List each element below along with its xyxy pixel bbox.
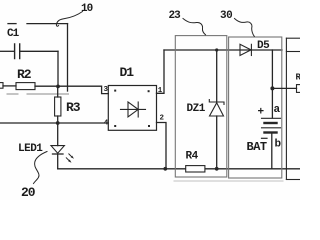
battery terminal label a [274,104,281,116]
wire (grey underline dash left) [7,93,18,95]
battery BAT [262,118,281,132]
node 23 label [169,10,182,22]
junction (DZ1 on bottom rail) [215,167,219,171]
battery terminal label b [275,139,282,151]
wire (bottom rail) [58,168,300,170]
leader line to block 10 [56,12,82,27]
node 10 label [81,3,93,15]
svg-text:DZ1: DZ1 [187,103,206,115]
wire (connector to R2) [3,85,16,87]
battery minus bar [262,137,268,139]
svg-text:R2: R2 [17,67,32,82]
wire (node A down to R3) [57,86,59,97]
resistor R3 label [66,100,81,115]
junction node C [270,86,274,90]
svg-text:23: 23 [169,10,182,22]
wire (R2 to node A) [35,85,58,87]
wire (battery negative down to bottom rail) [271,133,273,169]
wire (node B down to LED1) [57,123,59,146]
svg-text:R3: R3 [66,100,81,115]
resistor R2 label [17,67,32,82]
svg-text:10: 10 [81,3,93,15]
wire (vertical drop from top bar) [67,24,69,91]
zener diode DZ1 [209,100,224,117]
wire (node A to D1 pin 3 with step) [58,86,108,93]
resistor R3 [55,97,61,116]
resistor R4 label [186,151,199,163]
LED LED1 [51,146,64,154]
svg-text:D1: D1 [120,65,135,80]
connector stub at left edge [0,83,3,89]
svg-text:R: R [296,73,301,83]
junction (pin2 riser on bottom rail) [163,167,167,171]
wire (top DC rail) [164,49,282,51]
wire (top bar, main segment to corner) [27,23,68,25]
diode D5 label [257,40,270,52]
svg-text:C1: C1 [7,28,20,40]
wire (grey underline dash right) [27,93,69,95]
pin number 4 [104,120,109,128]
resistor R4 [186,166,205,172]
wire (long horizontal through node B to D1 pin 4) [0,122,108,124]
wire (vertical from C1 lead to node A) [57,51,59,86]
wire (DZ1 anode down to bottom rail) [216,116,218,169]
right edge component box (cut off) [297,85,305,93]
pin number 1 [158,87,163,95]
D1 inner diode [121,102,146,117]
right edge component R (cut off) [296,73,302,83]
junction node B [56,121,60,125]
wire (top rail down to DZ1) [216,50,218,102]
svg-text:30: 30 [220,10,232,22]
svg-text:2: 2 [160,115,165,123]
box 23 [175,36,227,177]
D1 corner pin dots [114,90,150,127]
wire (top bar over C1, left segment) [8,23,16,25]
wire (D1 pin 1 stub and riser to top rail) [157,50,165,93]
svg-text:D5: D5 [257,40,270,52]
junction (DZ1 riser on top rail) [215,48,218,51]
wire (R3 to node B) [57,116,59,123]
svg-text:a: a [274,104,281,116]
leader line from LED1 to 20 [34,152,48,184]
battery BAT label [247,140,267,154]
leader line to box 23 [183,19,206,35]
leader line to box 30 [235,19,255,37]
wire (LED1 cathode down to bottom rail) [57,154,59,169]
svg-text:20: 20 [21,185,36,200]
right edge block (cut off) [286,38,300,179]
resistor R2 [16,83,35,90]
pin number 3 [104,86,109,94]
node 20 label [21,185,36,200]
wire (C1 right lead) [20,50,58,52]
pin number 2 [160,115,165,123]
LED LED1 label [18,143,43,155]
battery BAT plus label [258,107,265,119]
wire (D1 pin 2 stub and riser to bottom rail) [157,123,167,169]
zener diode DZ1 label [187,103,206,115]
svg-text:+: + [258,107,265,119]
faint scan line under boxes [174,180,283,182]
box 30 [229,37,282,178]
junction node A [56,85,60,89]
capacitor C1 label [7,28,20,40]
bridge rectifier D1 body [108,86,156,131]
diode D5 [240,44,251,55]
wire (node C to right edge component) [272,87,296,89]
bridge rectifier D1 label [120,65,135,80]
wire (riser from top rail down to battery, through node C) [271,50,273,118]
svg-text:LED1: LED1 [18,143,43,155]
LED light arrows [66,154,74,163]
svg-text:R4: R4 [186,151,199,163]
capacitor C1 [15,44,20,59]
wire (C1 left lead) [0,50,14,52]
svg-text:BAT: BAT [247,140,267,154]
node 30 label [220,10,232,22]
svg-text:b: b [275,139,282,151]
